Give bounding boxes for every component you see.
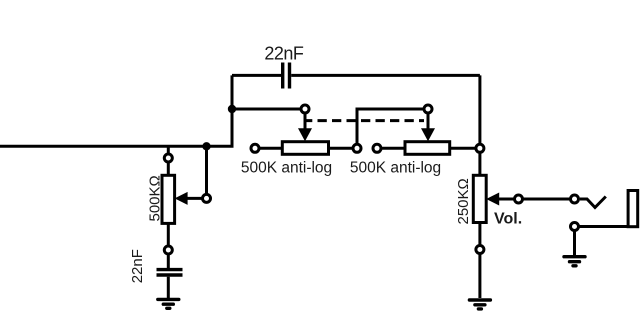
wire link VR1 right to VR2 wiper xyxy=(357,109,428,148)
svg-text:250KΩ: 250KΩ xyxy=(455,178,472,224)
arrowhead VR3 wiper (left) xyxy=(486,193,499,206)
terminal circle VR4 wiper xyxy=(203,194,211,202)
svg-text:22nF: 22nF xyxy=(129,249,146,283)
wire VR3 wiper to jack tip xyxy=(498,198,570,201)
capacitor C1 22nF xyxy=(283,63,290,89)
wire VR1 left terminal xyxy=(255,147,282,150)
junction dot node A xyxy=(228,105,236,113)
potentiometer VR2 track 500K anti-log xyxy=(405,142,450,155)
terminal circle VR2 left xyxy=(373,144,381,152)
ground GND2 below VR3 xyxy=(469,300,490,309)
arrowhead VR4 wiper (left) xyxy=(175,192,188,205)
wire VR4 bottom to C2 xyxy=(167,223,170,268)
terminal circle VR3 bottom xyxy=(476,246,484,254)
ground GND3 jack sleeve xyxy=(564,257,585,266)
wire top to C1 xyxy=(232,74,282,77)
wire input line xyxy=(0,75,232,146)
potentiometer VR3 track 250K Vol xyxy=(473,175,486,222)
wire right vertical down to VR3 xyxy=(478,75,481,175)
wire VR2 right terminal xyxy=(450,147,480,150)
svg-text:22nF: 22nF xyxy=(264,44,304,64)
terminal circle VR1 left xyxy=(251,144,259,152)
svg-text:500KΩ: 500KΩ xyxy=(146,175,163,221)
terminal circle jack sleeve xyxy=(571,223,579,231)
wire jack tip spring contact xyxy=(580,197,606,208)
wire C2 to ground xyxy=(167,277,170,298)
terminal circle VR3 wiper xyxy=(515,195,523,203)
terminal circle VR1 wiper top xyxy=(301,105,309,113)
svg-text:500K anti-log: 500K anti-log xyxy=(350,159,441,176)
wire C1 to right xyxy=(291,74,480,77)
arrowhead VR2 wiper (down) xyxy=(421,128,435,141)
terminal circle VR2 wiper top xyxy=(424,105,432,113)
capacitor C2 22nF plates xyxy=(157,270,183,275)
wire VR2 wiper stem xyxy=(427,109,430,130)
wire VR4 wiper xyxy=(186,197,207,200)
potentiometer VR4 track xyxy=(162,175,175,223)
terminal circle VR1 right xyxy=(353,144,361,152)
potentiometer VR4 500K vertical: stem top xyxy=(167,146,170,175)
wire jack sleeve to ground xyxy=(573,227,576,256)
wire node to VR1 wiper top xyxy=(232,108,305,111)
svg-text:Vol.: Vol. xyxy=(494,210,522,227)
wire VR1 right terminal xyxy=(329,147,358,150)
svg-text:500K anti-log: 500K anti-log xyxy=(241,159,332,176)
junction dot node B xyxy=(202,142,210,150)
terminal circle VR4 top xyxy=(164,154,172,162)
wire VR1 wiper stem xyxy=(304,109,307,130)
wire VR3 bottom to ground xyxy=(478,223,481,299)
terminal circle VR4 bottom xyxy=(164,246,172,254)
wire dashed gang link xyxy=(306,119,424,122)
wire jack sleeve line xyxy=(575,225,637,228)
wire VR4 wiper vertical xyxy=(205,146,208,198)
arrowhead VR1 wiper (down) xyxy=(298,128,312,141)
terminal circle jack tip xyxy=(571,195,579,203)
potentiometer VR1 track 500K anti-log xyxy=(282,142,328,155)
terminal circle output node xyxy=(476,144,484,152)
jack J1 body rect xyxy=(628,191,638,227)
wire VR2 left terminal xyxy=(377,147,405,150)
ground GND1 below C2 xyxy=(158,299,179,308)
